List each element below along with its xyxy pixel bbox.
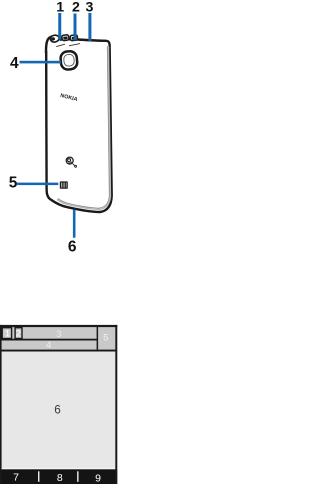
dark gap between oval and charger slot <box>59 36 63 41</box>
svg-text:3: 3 <box>56 329 61 340</box>
svg-text:6: 6 <box>68 239 77 256</box>
display schematic: light strip above softkey bar <box>2 468 116 469</box>
leader line 6 <box>73 209 76 237</box>
svg-text:8: 8 <box>57 472 63 484</box>
USB port slot (top edge) <box>70 35 78 41</box>
zone 1 cell <box>2 328 11 339</box>
zone 2 cell <box>15 328 22 339</box>
loudspeaker grille (item 5 icon) <box>60 181 68 188</box>
charger port slot (top edge) <box>62 35 69 41</box>
svg-text:4: 4 <box>46 340 51 351</box>
softkey bar background <box>0 469 117 484</box>
phone body (back view) <box>46 36 112 212</box>
display schematic: main area background <box>2 351 116 470</box>
leader line 3 <box>88 13 91 41</box>
leader line 1 <box>58 13 61 40</box>
svg-text:5: 5 <box>103 333 108 344</box>
svg-text:6: 6 <box>54 402 61 416</box>
leader line 4 <box>20 61 62 64</box>
svg-text:2: 2 <box>16 328 21 338</box>
top seam marks <box>56 44 80 47</box>
softkey separator B <box>77 471 78 482</box>
svg-text:5: 5 <box>9 175 18 192</box>
power connector oval (top edge) <box>50 34 60 42</box>
zone 5 left border <box>97 327 99 350</box>
softkey separator A <box>38 471 39 482</box>
display schematic: header background <box>2 327 116 351</box>
camera window U1 <box>60 51 78 70</box>
schematic top border <box>0 325 117 327</box>
back cover shading band (right/bottom) <box>57 46 110 209</box>
svg-text:1: 1 <box>5 328 10 338</box>
top edge reinforcement (right segment) <box>78 40 106 41</box>
schematic left border <box>0 325 2 484</box>
svg-text:4: 4 <box>10 55 19 72</box>
svg-text:7: 7 <box>13 472 19 484</box>
svg-text:2: 2 <box>72 0 80 15</box>
separator header/main <box>2 350 116 352</box>
leader line 2 <box>74 14 77 41</box>
certification emblem <box>66 157 76 167</box>
leader line 5 <box>17 183 58 186</box>
back cover seam line <box>58 46 110 208</box>
svg-text:9: 9 <box>95 473 101 484</box>
schematic right border <box>115 325 117 484</box>
separator row1/row2 <box>2 339 98 341</box>
